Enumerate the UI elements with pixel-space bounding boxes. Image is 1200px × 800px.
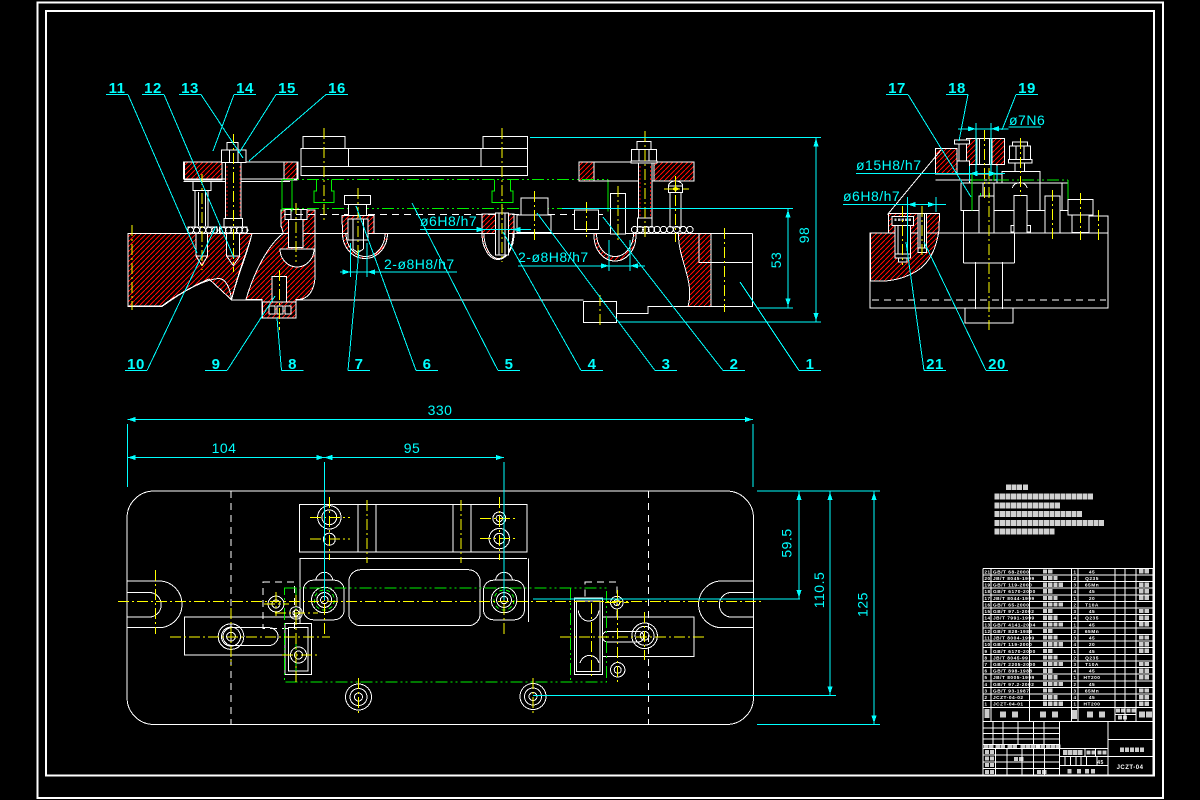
svg-text:16: 16 bbox=[985, 602, 991, 607]
svg-text:1: 1 bbox=[1074, 569, 1077, 574]
svg-text:GB/T 119-2000: GB/T 119-2000 bbox=[993, 642, 1032, 648]
svg-text:65Mn: 65Mn bbox=[1085, 629, 1099, 635]
svg-text:GB/T 828-1988: GB/T 828-1988 bbox=[993, 629, 1033, 635]
svg-text:53: 53 bbox=[768, 252, 784, 269]
svg-text:ø6H8/h7: ø6H8/h7 bbox=[843, 188, 900, 204]
svg-text:20: 20 bbox=[985, 576, 991, 581]
svg-text:1: 1 bbox=[1074, 702, 1077, 707]
svg-text:13: 13 bbox=[985, 622, 991, 627]
svg-text:45: 45 bbox=[1089, 569, 1095, 575]
svg-text:18: 18 bbox=[985, 589, 991, 594]
svg-text:Q235: Q235 bbox=[1085, 616, 1099, 622]
svg-text:ø7N6: ø7N6 bbox=[1009, 112, 1045, 128]
svg-text:59.5: 59.5 bbox=[779, 528, 795, 557]
svg-text:T10A: T10A bbox=[1085, 662, 1099, 668]
svg-text:10: 10 bbox=[985, 642, 991, 647]
svg-text:ø15H8/h7: ø15H8/h7 bbox=[856, 157, 921, 173]
svg-text:3: 3 bbox=[1074, 662, 1077, 667]
svg-text:ø6H8/h7: ø6H8/h7 bbox=[420, 213, 477, 229]
svg-text:20: 20 bbox=[1089, 642, 1095, 648]
svg-text:19: 19 bbox=[985, 583, 991, 588]
svg-text:JB/T 8045-99: JB/T 8045-99 bbox=[993, 655, 1028, 661]
svg-text:15: 15 bbox=[985, 609, 991, 614]
svg-text:1: 1 bbox=[1074, 622, 1077, 627]
svg-text:2: 2 bbox=[1074, 655, 1077, 660]
svg-text:JCZT-04-01: JCZT-04-01 bbox=[993, 702, 1024, 708]
svg-text:1: 1 bbox=[1074, 649, 1077, 654]
svg-text:45: 45 bbox=[1089, 669, 1095, 675]
svg-text:45: 45 bbox=[1089, 695, 1095, 701]
svg-text:GB/T 4141-2004: GB/T 4141-2004 bbox=[993, 622, 1036, 628]
svg-text:GB/T 6170-2000: GB/T 6170-2000 bbox=[993, 589, 1036, 595]
svg-text:7: 7 bbox=[985, 662, 988, 667]
svg-text:45: 45 bbox=[1089, 609, 1095, 615]
svg-text:GB/T 898-1988: GB/T 898-1988 bbox=[993, 669, 1033, 675]
svg-text:4: 4 bbox=[1074, 589, 1077, 594]
svg-text:2: 2 bbox=[1074, 682, 1077, 687]
svg-text:GB/T 68-2000: GB/T 68-2000 bbox=[993, 569, 1029, 575]
svg-text:9: 9 bbox=[985, 649, 988, 654]
svg-text:JCZT-04-02: JCZT-04-02 bbox=[993, 695, 1024, 701]
svg-text:1: 1 bbox=[1074, 596, 1077, 601]
svg-text:45: 45 bbox=[1089, 682, 1095, 688]
svg-text:125: 125 bbox=[855, 592, 871, 617]
svg-text:65Mn: 65Mn bbox=[1085, 688, 1099, 694]
svg-text:45: 45 bbox=[1089, 589, 1095, 595]
svg-text:JB/T 8044-1999: JB/T 8044-1999 bbox=[993, 596, 1035, 602]
svg-text:11: 11 bbox=[985, 636, 991, 641]
svg-text:4: 4 bbox=[985, 682, 988, 687]
svg-text:110.5: 110.5 bbox=[811, 572, 827, 609]
svg-text:14: 14 bbox=[985, 616, 991, 621]
svg-text:17: 17 bbox=[985, 596, 991, 601]
svg-text:2-ø8H8/h7: 2-ø8H8/h7 bbox=[384, 256, 455, 272]
svg-text:3: 3 bbox=[985, 688, 988, 693]
svg-text:95: 95 bbox=[404, 440, 421, 456]
svg-text:21: 21 bbox=[985, 569, 991, 574]
svg-text:3: 3 bbox=[1074, 688, 1077, 693]
svg-text:T10A: T10A bbox=[1085, 602, 1099, 608]
svg-text:2: 2 bbox=[1074, 629, 1077, 634]
svg-text:1: 1 bbox=[985, 702, 988, 707]
svg-text:JB/T 8005-1999: JB/T 8005-1999 bbox=[993, 675, 1035, 681]
svg-text:GB/T 97.1-2002: GB/T 97.1-2002 bbox=[993, 609, 1034, 615]
svg-text:3: 3 bbox=[1074, 609, 1077, 614]
svg-text:JB/T 7991-1999: JB/T 7991-1999 bbox=[993, 616, 1035, 622]
svg-text:GB/T 119-2000: GB/T 119-2000 bbox=[993, 583, 1032, 589]
svg-text:45: 45 bbox=[1089, 622, 1095, 628]
svg-text:45: 45 bbox=[1097, 760, 1104, 766]
svg-text:HT200: HT200 bbox=[1084, 675, 1101, 681]
svg-text:Q235: Q235 bbox=[1085, 655, 1099, 661]
svg-text:104: 104 bbox=[212, 440, 237, 456]
svg-text:GB/T 2205-2000: GB/T 2205-2000 bbox=[993, 662, 1036, 668]
svg-text:3: 3 bbox=[1074, 636, 1077, 641]
svg-text:2: 2 bbox=[1074, 576, 1077, 581]
svg-text:GB/T 6170-2000: GB/T 6170-2000 bbox=[993, 649, 1036, 655]
svg-text:98: 98 bbox=[796, 227, 812, 244]
svg-text:4: 4 bbox=[1074, 669, 1077, 674]
svg-text:2: 2 bbox=[985, 695, 988, 700]
svg-text:8: 8 bbox=[985, 655, 988, 660]
svg-text:2: 2 bbox=[1074, 602, 1077, 607]
svg-text:12: 12 bbox=[985, 629, 991, 634]
svg-text:GB/T 97.2-2002: GB/T 97.2-2002 bbox=[993, 682, 1034, 688]
svg-text:4: 4 bbox=[1074, 616, 1077, 621]
svg-text:6: 6 bbox=[985, 669, 988, 674]
svg-text:1: 1 bbox=[1074, 675, 1077, 680]
svg-text:JCZT-04: JCZT-04 bbox=[1117, 765, 1144, 771]
svg-text:GB/T 93-1987: GB/T 93-1987 bbox=[993, 688, 1029, 694]
svg-text:GB/T 65-2000: GB/T 65-2000 bbox=[993, 602, 1029, 608]
svg-text:JB/T 8045-1999: JB/T 8045-1999 bbox=[993, 576, 1035, 582]
svg-text:4: 4 bbox=[1074, 695, 1077, 700]
svg-text:45: 45 bbox=[1089, 649, 1095, 655]
svg-text:20: 20 bbox=[1089, 596, 1095, 602]
svg-text:65Mn: 65Mn bbox=[1085, 583, 1099, 589]
svg-text:2-ø8H8/h7: 2-ø8H8/h7 bbox=[518, 249, 589, 265]
svg-text:330: 330 bbox=[428, 402, 453, 418]
svg-text:4: 4 bbox=[1074, 642, 1077, 647]
svg-text:3: 3 bbox=[1074, 583, 1077, 588]
svg-text:HT200: HT200 bbox=[1084, 702, 1101, 708]
svg-text:5: 5 bbox=[985, 675, 988, 680]
svg-text:45: 45 bbox=[1089, 636, 1095, 642]
svg-text:JB/T 8004-1999: JB/T 8004-1999 bbox=[993, 636, 1035, 642]
svg-text:Q235: Q235 bbox=[1085, 576, 1099, 582]
